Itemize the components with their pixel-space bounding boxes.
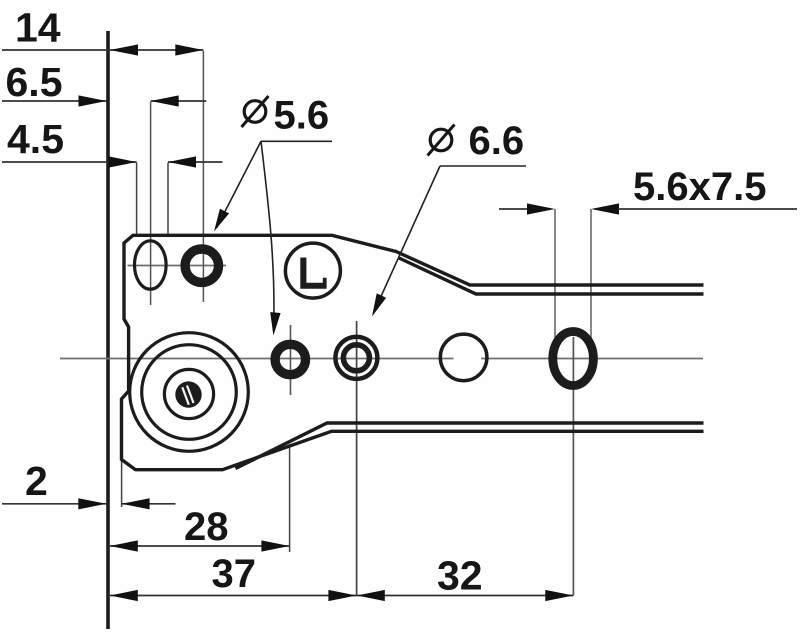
top holes horizontal centerline bbox=[128, 265, 227, 267]
hole 6.6 outer circle bbox=[335, 337, 377, 379]
dim 2 left arrow bbox=[78, 498, 106, 509]
dim 4.5 left arrow bbox=[109, 156, 137, 167]
dim 5.6x7.5 tail right bbox=[618, 208, 797, 210]
bottom rail inner fold line bbox=[236, 423, 704, 469]
leader 5.6 to top hole bbox=[217, 141, 262, 228]
svg-text:5.6: 5.6 bbox=[274, 94, 330, 138]
dim 4.5 right arrow bbox=[168, 156, 196, 167]
svg-text:4.5: 4.5 bbox=[7, 116, 64, 162]
top oval slot hole bbox=[135, 241, 167, 289]
label 5.6 text bbox=[242, 94, 330, 138]
svg-text:6.5: 6.5 bbox=[6, 59, 63, 105]
dim 2 right arrow bbox=[122, 498, 150, 509]
extension line x=168 (4.5 dim right) bbox=[167, 163, 169, 235]
hole 6.6 vertical centerline / 37-32 extension x=356.6 bbox=[356, 321, 358, 596]
L marked circle bbox=[285, 243, 340, 298]
dim 28 left arrow bbox=[110, 540, 138, 551]
dim 28 right arrow bbox=[261, 540, 289, 551]
dim 32 right arrow bbox=[545, 590, 573, 601]
right oval slot vertical centerline / 32 extension x=573.4 bbox=[572, 337, 574, 596]
dim 6.5 tail right bbox=[151, 100, 207, 102]
svg-text:5.6x7.5: 5.6x7.5 bbox=[633, 165, 766, 209]
roller outer circle bbox=[130, 333, 249, 452]
extension line x=121.6 (2 dim) bbox=[121, 460, 123, 507]
dim 6.5 line left bbox=[2, 100, 107, 102]
roller hub circle bbox=[164, 369, 213, 418]
dim 5.6x7.5 left arrow bbox=[527, 203, 555, 214]
leader 6.6 bbox=[374, 166, 441, 313]
dim 4.5 line left bbox=[2, 161, 137, 163]
label 6.6 underline bbox=[440, 165, 526, 167]
svg-text:2: 2 bbox=[25, 458, 48, 504]
dim 14 line bbox=[2, 49, 203, 51]
dim 2 line left bbox=[2, 503, 106, 505]
leader 6.6 arrowhead bbox=[372, 293, 386, 316]
extension line x=150.6 (oval slot centerline / 6.5 dim) bbox=[150, 102, 152, 306]
roller screw head bbox=[175, 381, 201, 407]
extension line x=203.4 (round hole centerline / 14 dim) bbox=[202, 51, 204, 303]
leader 5.6 to small hole (curved) bbox=[261, 141, 274, 331]
small hole vertical centerline x=290.5 bbox=[290, 325, 292, 395]
label 6.6 text bbox=[428, 119, 525, 163]
hole 6.6 inner circle bbox=[343, 345, 369, 371]
bracket outer outline bbox=[122, 235, 704, 469]
dim 37 left arrow bbox=[110, 590, 138, 601]
dim 4.5 tail right bbox=[168, 161, 223, 163]
extension line x=555 (5.6x7.5 left) bbox=[554, 209, 556, 342]
dim 14 right arrow bbox=[175, 44, 203, 55]
plain hole bbox=[440, 334, 487, 381]
dim 6.5 left arrow bbox=[79, 95, 107, 106]
extension line x=591 (5.6x7.5 right) bbox=[590, 209, 592, 340]
dim 2 tail right bbox=[122, 503, 176, 505]
dim 5.6x7.5 right arrow bbox=[591, 203, 619, 214]
extension line x=136.6 (4.5 dim left) bbox=[136, 163, 138, 235]
svg-text:14: 14 bbox=[15, 5, 61, 51]
svg-text:28: 28 bbox=[184, 505, 229, 549]
extension line x=289.6 (28 dim) bbox=[289, 444, 291, 552]
dim 5.6x7.5 tail left bbox=[499, 208, 527, 210]
dim 14 left arrow bbox=[110, 44, 138, 55]
dim 28 line bbox=[110, 545, 290, 547]
top rail inner fold line bbox=[399, 258, 704, 294]
screw slot slashes bbox=[187, 386, 194, 404]
dim 6.5 right arrow bbox=[151, 95, 179, 106]
roller second circle bbox=[142, 345, 237, 440]
svg-text:37: 37 bbox=[212, 552, 257, 596]
leader 5.6 top arrowhead bbox=[214, 209, 229, 232]
right oval slot 5.6x7.5 bbox=[553, 332, 594, 386]
svg-text:32: 32 bbox=[437, 553, 483, 599]
letter L bbox=[300, 258, 326, 289]
dim 37-32 line bbox=[110, 595, 574, 597]
cabinet wall line bbox=[106, 31, 110, 629]
top round hole ring (5.6) bbox=[185, 249, 218, 282]
dim 37 right arrow bbox=[328, 590, 356, 601]
dim 32 left arrow bbox=[357, 590, 385, 601]
small ring hole (5.6) bbox=[275, 344, 305, 374]
svg-text:6.6: 6.6 bbox=[469, 119, 525, 163]
leader 5.6 small hole arrowhead bbox=[270, 312, 280, 335]
main horizontal centerline bbox=[60, 358, 454, 360]
label 5.6 underline bbox=[261, 140, 332, 142]
